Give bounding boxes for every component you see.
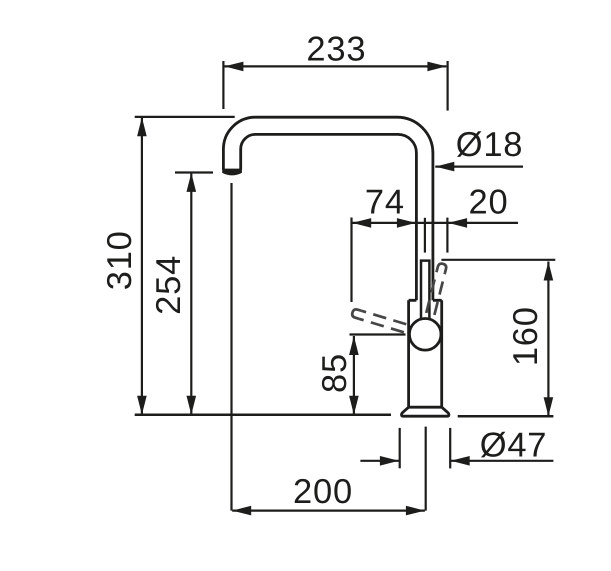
svg-text:160: 160 <box>507 306 545 366</box>
svg-text:74: 74 <box>365 184 405 222</box>
svg-text:Ø47: Ø47 <box>480 426 548 464</box>
svg-text:233: 233 <box>306 30 366 68</box>
svg-text:254: 254 <box>150 255 188 315</box>
svg-text:200: 200 <box>293 473 353 511</box>
svg-text:20: 20 <box>469 184 509 222</box>
svg-text:Ø18: Ø18 <box>456 126 524 164</box>
svg-text:310: 310 <box>101 230 139 290</box>
svg-text:85: 85 <box>316 353 354 393</box>
